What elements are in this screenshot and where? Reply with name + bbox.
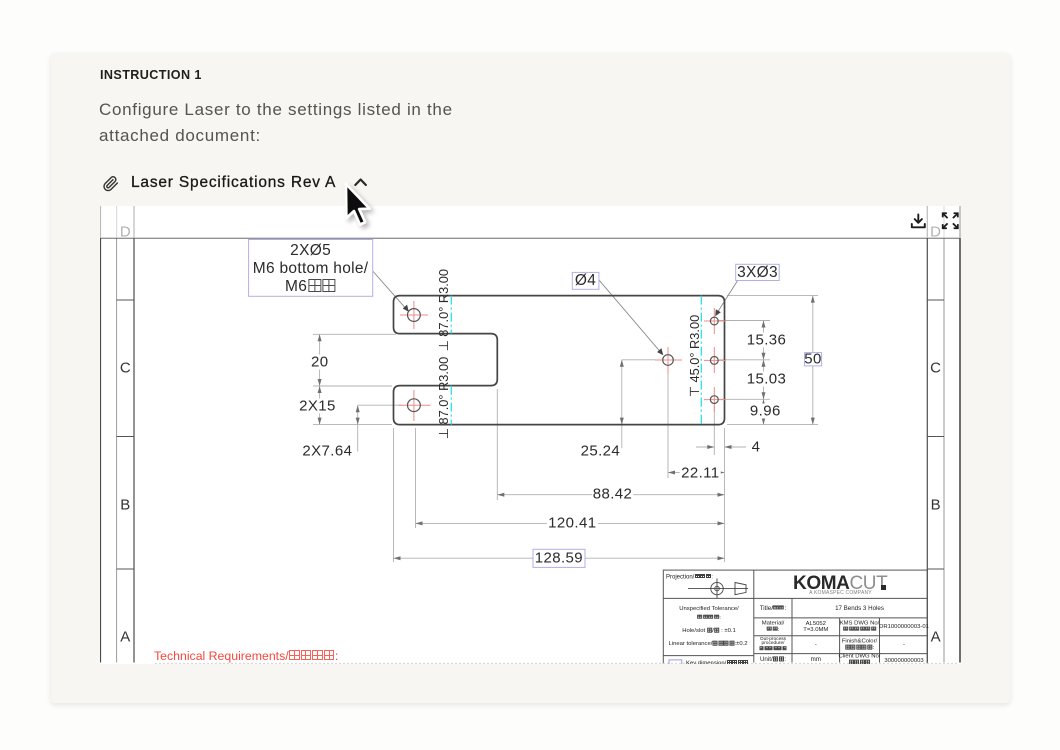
extension and dimension lines — [313, 296, 818, 562]
body paragraph — [99, 97, 453, 149]
title block grid — [663, 570, 927, 665]
expand icon — [943, 213, 958, 228]
dim 4 — [713, 406, 715, 455]
hole label O4 — [575, 272, 596, 290]
caret chevron — [355, 180, 366, 186]
dim 120.41 — [415, 428, 417, 528]
bend lines (cyan) — [451, 296, 701, 425]
dim 25.24 — [622, 359, 656, 361]
dim 20 ext — [313, 333, 396, 335]
sheet outer borders — [99, 206, 101, 663]
title block texts — [666, 574, 713, 581]
toolbar overlay band — [100, 206, 962, 238]
hole label 3XO3 — [737, 264, 778, 282]
hole circles — [408, 309, 719, 412]
part outline — [394, 296, 725, 425]
red hole crosshairs — [399, 301, 727, 421]
zone strip lines — [116, 206, 118, 663]
zone letters — [120, 223, 131, 240]
frame top line — [100, 237, 960, 239]
technical requirements red note — [154, 649, 338, 663]
tolerance cell — [679, 606, 739, 612]
dim 22.11 — [667, 367, 669, 478]
dim 2X7.64 — [358, 404, 402, 406]
dim 2X15 — [319, 386, 321, 425]
dimension texts — [310, 354, 330, 369]
dim 50 — [727, 295, 818, 297]
dimension arrows — [318, 296, 815, 561]
KOMACUT logo — [793, 573, 887, 595]
label boxes — [249, 240, 822, 568]
bend note texts — [436, 269, 702, 439]
card — [51, 53, 1010, 703]
dim 88.42 — [496, 389, 498, 500]
dims 15.36/15.03/9.96 ext — [719, 320, 770, 322]
dim 128.59 — [393, 428, 395, 562]
attachment file name — [131, 174, 336, 192]
key dimension checkbox — [669, 660, 682, 668]
heading INSTRUCTION 1 — [100, 68, 202, 82]
leader lines — [373, 271, 738, 353]
drawing viewer — [100, 206, 962, 664]
hole label 2XO5 — [290, 242, 331, 260]
projection symbol — [688, 579, 748, 599]
zone dividers — [117, 299, 134, 301]
faint dashed line at clipped bottom — [155, 662, 958, 664]
table cells — [760, 605, 787, 612]
